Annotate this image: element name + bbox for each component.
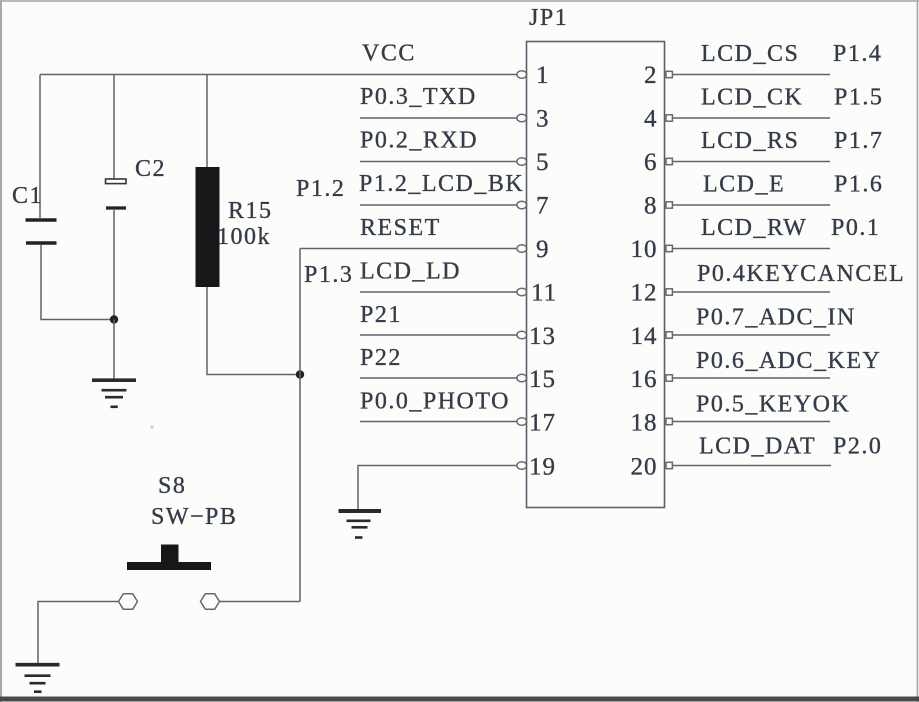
pin 2 stub (666, 71, 672, 77)
pin 7 stub (517, 201, 527, 209)
pin 10 stub (666, 245, 672, 251)
wire pin 16 P0.6_ADC_KEY (673, 377, 831, 379)
pin 18 stub (666, 418, 672, 424)
pin 9 stub (517, 245, 527, 253)
wire pin 4 LCD_CK (673, 117, 831, 119)
svg-text:11: 11 (531, 280, 557, 307)
pin 20 stub (666, 462, 672, 468)
wire R15 bottom lead (207, 287, 296, 375)
svg-text:RESET: RESET (360, 215, 441, 241)
connector JP1 box (527, 42, 665, 508)
svg-text:P0.6_ADC_KEY: P0.6_ADC_KEY (696, 348, 881, 374)
wire pin 20 LCD_DAT (673, 465, 832, 467)
wire pin 17 P0.0_PHOTO (360, 421, 517, 423)
wire pin 15 P22 (360, 377, 517, 379)
svg-text:13: 13 (529, 323, 556, 350)
svg-text:P1.2: P1.2 (296, 176, 345, 202)
svg-text:16: 16 (631, 366, 658, 393)
svg-text:15: 15 (529, 366, 556, 393)
pin 15 stub (517, 374, 527, 382)
svg-text:LCD_E: LCD_E (703, 172, 785, 198)
wire C2 bottom lead (113, 210, 115, 320)
svg-text:P1.3: P1.3 (304, 262, 353, 288)
ground G1 (92, 380, 136, 407)
wire pin 3 P0.3_TXD (360, 117, 517, 119)
wire switch left lead (38, 602, 119, 664)
capacitor C1 (12, 183, 57, 243)
node junction C1/C2/ground (110, 315, 118, 323)
svg-text:4: 4 (644, 106, 658, 133)
svg-text:100k: 100k (217, 224, 271, 250)
wire pin 13 P21 (360, 334, 517, 336)
wire switch right lead (220, 601, 301, 603)
pin 5 stub (517, 158, 527, 166)
svg-text:LCD_CS: LCD_CS (701, 41, 799, 67)
wire pin 18 P0.5_KEYOK (673, 421, 831, 423)
svg-text:P0.3_TXD: P0.3_TXD (360, 84, 477, 110)
wire R15 top lead (206, 75, 208, 168)
node junction R15/RESET net (296, 370, 304, 378)
pin 11 stub (517, 288, 527, 296)
svg-text:9: 9 (536, 236, 550, 263)
wire C1 top lead (39, 75, 41, 219)
svg-text:LCD_DAT: LCD_DAT (699, 434, 816, 460)
wire pin 7 P1.2_LCD_BK (360, 204, 517, 206)
svg-text:LCD_RS: LCD_RS (701, 128, 799, 154)
svg-text:P0.0_PHOTO: P0.0_PHOTO (360, 389, 510, 415)
svg-text:P0.2_RXD: P0.2_RXD (360, 128, 478, 154)
pin 14 stub (666, 332, 672, 338)
wire pin 12 P0.4KEYCANCEL (673, 291, 831, 293)
pin 8 stub (666, 202, 672, 208)
svg-text:VCC: VCC (362, 41, 416, 67)
wire pin 5 P0.2_RXD (360, 161, 517, 163)
svg-text:18: 18 (631, 410, 658, 437)
svg-text:P0.5_KEYOK: P0.5_KEYOK (696, 392, 850, 418)
pin 17 stub (517, 418, 527, 426)
svg-text:P0.4KEYCANCEL: P0.4KEYCANCEL (697, 261, 905, 287)
svg-text:7: 7 (536, 193, 550, 220)
wire C2 top lead (113, 75, 115, 179)
svg-text:C2: C2 (135, 156, 166, 182)
svg-text:12: 12 (631, 280, 658, 307)
svg-text:6: 6 (644, 149, 658, 176)
svg-text:P1.5: P1.5 (834, 85, 883, 111)
svg-text:P1.2_LCD_BK: P1.2_LCD_BK (359, 171, 524, 197)
svg-text:LCD_CK: LCD_CK (701, 85, 803, 111)
svg-text:P1.7: P1.7 (834, 128, 883, 154)
svg-text:P1.6: P1.6 (834, 172, 883, 198)
pin 19 stub (517, 462, 527, 470)
svg-text:P1.4: P1.4 (833, 41, 882, 67)
pin 4 stub (666, 115, 672, 121)
svg-text:P22: P22 (360, 345, 402, 371)
svg-text:1: 1 (536, 62, 550, 89)
svg-text:19: 19 (529, 454, 556, 481)
pin 6 stub (666, 158, 672, 164)
wire RESET net vertical (299, 249, 301, 602)
svg-text:S8: S8 (158, 473, 186, 499)
svg-text:LCD_LD: LCD_LD (360, 259, 461, 285)
svg-text:10: 10 (631, 236, 658, 263)
svg-text:P2.0: P2.0 (833, 434, 882, 460)
wire ground stem left (113, 320, 115, 379)
capacitor C2 (106, 156, 167, 208)
wire C1 bottom lead (41, 245, 110, 320)
wire pin 2 LCD_CS (673, 74, 831, 76)
svg-text:17: 17 (529, 410, 556, 437)
svg-text:P0.1: P0.1 (831, 215, 880, 241)
wire pin 11 LCD_LD (360, 291, 517, 293)
wire pin 10 LCD_RW (673, 248, 831, 250)
svg-text:P21: P21 (360, 302, 402, 328)
resistor R15 (196, 167, 273, 287)
pin 12 stub (666, 289, 672, 295)
svg-text:14: 14 (631, 323, 658, 350)
switch S8 SW-PB (119, 473, 238, 609)
svg-text:LCD_RW: LCD_RW (701, 215, 807, 241)
svg-text:2: 2 (644, 62, 658, 89)
wire RESET to pin 9 (300, 248, 517, 250)
pin 16 stub (666, 375, 672, 381)
svg-text:JP1: JP1 (529, 5, 568, 31)
wire pin 14 P0.7_ADC_IN (673, 334, 831, 336)
svg-text:8: 8 (644, 193, 658, 220)
wire pin 19 to ground (358, 466, 517, 510)
ground G2 under pin 19 (339, 511, 382, 538)
pin 3 stub (517, 114, 527, 122)
ground G3 bottom left (16, 665, 60, 692)
wire pin 6 LCD_RS (673, 161, 831, 163)
pin 1 stub (517, 71, 527, 79)
wire pin 8 LCD_E (673, 204, 831, 206)
svg-text:20: 20 (631, 454, 658, 481)
svg-text:SW−PB: SW−PB (151, 504, 237, 530)
pin 13 stub (517, 331, 527, 339)
svg-text:3: 3 (536, 106, 550, 133)
wire VCC rail (40, 74, 517, 76)
svg-text:C1: C1 (12, 183, 43, 209)
svg-text:5: 5 (536, 149, 550, 176)
svg-text:R15: R15 (228, 198, 273, 224)
svg-text:P0.7_ADC_IN: P0.7_ADC_IN (696, 305, 856, 331)
